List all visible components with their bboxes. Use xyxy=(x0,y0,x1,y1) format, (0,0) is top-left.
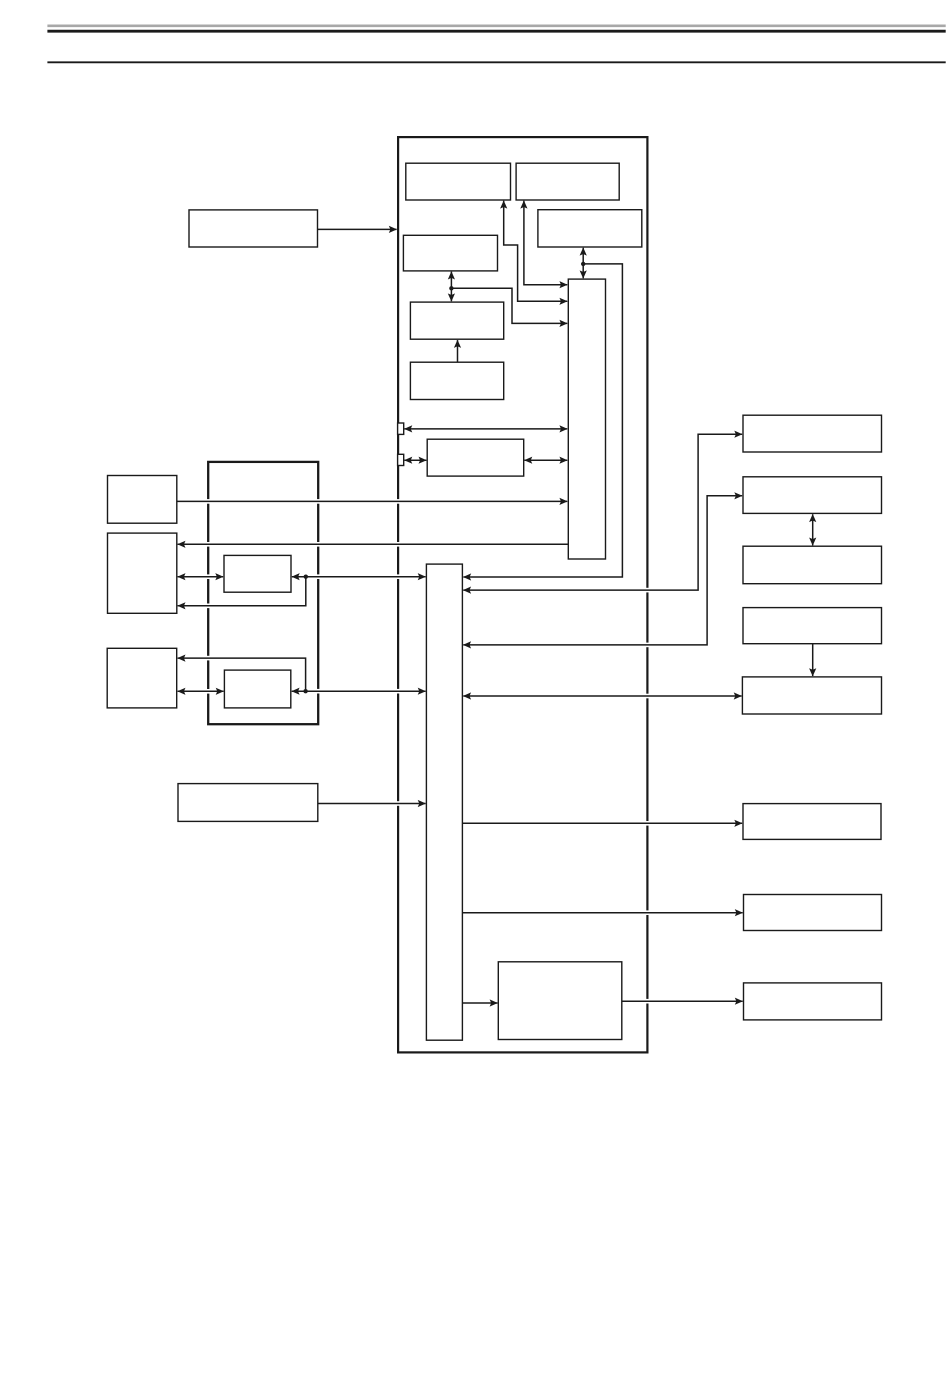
header rule gray xyxy=(47,24,945,27)
wire I to R5 xyxy=(463,695,741,697)
main unit outline xyxy=(398,137,647,1052)
box J bottom middle xyxy=(498,962,622,1040)
wire Q to I xyxy=(318,803,426,805)
wire tab2 to H xyxy=(405,459,427,461)
box L xyxy=(108,476,177,524)
connector tab 1 xyxy=(398,423,404,434)
wire A to G elbow xyxy=(504,201,568,301)
box R1 xyxy=(743,415,882,452)
wire G to M xyxy=(178,543,569,545)
wire F to E xyxy=(457,340,459,362)
junction dot O branch xyxy=(304,575,308,579)
wire branch D-E junction to G xyxy=(451,288,567,323)
box O xyxy=(224,555,291,592)
box H xyxy=(427,439,524,476)
wire M to O xyxy=(178,576,223,578)
box R5 xyxy=(742,677,881,714)
wire I to R2 elbow xyxy=(463,496,742,645)
wire branch O junction down to M xyxy=(178,577,306,606)
wire R2 to R3 xyxy=(812,514,814,545)
box N xyxy=(107,648,177,708)
wire P to I xyxy=(292,690,426,692)
wire J to R8 xyxy=(622,1000,743,1002)
junction dot D-E branch xyxy=(449,286,453,290)
junction dot C branch xyxy=(581,262,585,266)
wire tab1 to G xyxy=(405,428,568,430)
wire O to I xyxy=(292,576,426,578)
junction dot P branch xyxy=(303,689,307,693)
wire branch P junction up to N xyxy=(178,658,306,691)
box R2 xyxy=(743,477,882,514)
wire branch C junction to I right side xyxy=(463,264,622,577)
connector tab 2 xyxy=(398,454,404,465)
box R3 xyxy=(743,546,882,584)
box K outside top-left xyxy=(189,210,318,247)
wire L to G xyxy=(177,500,567,502)
wire I to J xyxy=(462,1002,497,1004)
wire H to G xyxy=(525,459,568,461)
wire K to main unit xyxy=(318,228,397,230)
box R7 xyxy=(744,895,882,931)
box Q bottom-left xyxy=(178,784,318,822)
wire B to G elbow xyxy=(524,201,567,285)
box F xyxy=(410,362,503,399)
box E xyxy=(410,302,503,339)
header underline xyxy=(47,61,945,63)
wire D to E vertical xyxy=(450,272,452,302)
wire N to P xyxy=(178,690,224,692)
wire I to R7 xyxy=(462,912,742,914)
box C right inside xyxy=(538,210,642,247)
header rule black thick xyxy=(47,30,945,33)
border gaps at wire crossings xyxy=(205,499,651,1003)
box B top-right inside xyxy=(516,163,619,200)
tall box I xyxy=(426,564,462,1040)
box R4 xyxy=(743,608,882,644)
tall box G xyxy=(568,279,605,559)
box R6 xyxy=(743,804,881,840)
box R8 xyxy=(744,983,882,1020)
box P xyxy=(224,670,290,708)
wire I to R6 xyxy=(462,822,742,824)
box M xyxy=(108,533,177,613)
box D xyxy=(403,235,497,271)
wire C to G vertical xyxy=(582,248,584,278)
wire R4 to R5 xyxy=(812,644,814,676)
box A top-left inside xyxy=(406,163,511,200)
wire I to R1 elbow xyxy=(463,434,742,590)
sub unit outline thick xyxy=(208,462,318,724)
